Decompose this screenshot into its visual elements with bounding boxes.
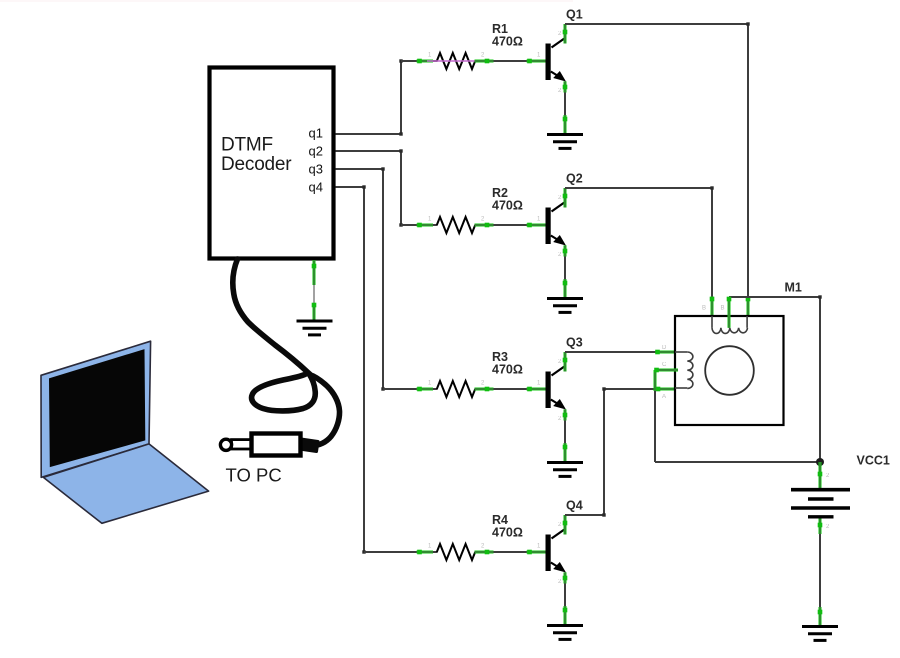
- collector wire of Q1: [563, 24, 568, 44]
- svg-text:VCC1: VCC1: [857, 454, 890, 468]
- resistor R4 470ohm: [433, 513, 523, 560]
- motor left coil winding: [662, 345, 693, 400]
- emitter wire of Q3 to ground: [563, 409, 568, 462]
- node wire into resistor R2: [401, 217, 433, 228]
- svg-text:C: C: [662, 362, 667, 368]
- svg-text:A: A: [662, 394, 666, 400]
- collector wire of Q3: [563, 352, 568, 372]
- collector wire of Q4: [563, 515, 568, 535]
- scan artifact line: [0, 0, 573, 2]
- wire resistor R2 to base of Q2: [475, 217, 548, 228]
- wire Q2 collector to motor top coil left pin: [565, 186, 714, 316]
- svg-text:B: B: [721, 306, 725, 312]
- resistor R2 470ohm: [433, 186, 523, 233]
- ground under Q3: [547, 461, 583, 464]
- wire Q3 collector to motor left coil pin D: [565, 350, 675, 355]
- audio jack strain relief nub: [300, 439, 319, 452]
- emitter wire of Q1 to ground: [563, 81, 568, 134]
- ground under decoder: [297, 260, 333, 335]
- svg-text:DTMF: DTMF: [221, 135, 273, 156]
- motor top coil winding: [702, 306, 748, 334]
- svg-text:Q1: Q1: [566, 8, 583, 22]
- svg-text:TO PC: TO PC: [226, 465, 282, 486]
- audio jack body: [252, 434, 301, 456]
- transistor Q4: [546, 499, 583, 586]
- svg-text:D: D: [662, 345, 667, 351]
- svg-text:Decoder: Decoder: [221, 154, 292, 175]
- svg-text:B: B: [702, 306, 706, 312]
- battery VCC1: [791, 454, 890, 517]
- wire Q1 collector to motor top coil right pin: [565, 22, 750, 316]
- wire resistor R3 to base of Q3: [475, 381, 548, 392]
- audio jack tip ring: [220, 439, 231, 450]
- USB/audio cable from decoder to jack: [233, 259, 340, 446]
- wire battery to ground: [818, 519, 830, 627]
- motor M1 label and wire: [727, 281, 822, 463]
- svg-text:470Ω: 470Ω: [492, 199, 523, 213]
- wire Q4 collector to motor left coil pin A: [565, 387, 675, 517]
- wire resistor R4 to base of Q4: [475, 544, 548, 555]
- transistor Q2: [546, 172, 583, 259]
- resistor R1 470ohm: [427, 22, 523, 69]
- DTMF decoder box U1: [210, 68, 334, 259]
- svg-text:470Ω: 470Ω: [492, 363, 523, 377]
- motor center tap pin C wire to VCC rail: [654, 368, 678, 462]
- ground under battery: [802, 625, 838, 628]
- stepper motor M1 body: [675, 316, 784, 425]
- motor rotor circle: [705, 346, 754, 395]
- svg-text:Q2: Q2: [566, 172, 583, 186]
- laptop computer: [41, 341, 209, 523]
- wire resistor R1 to base of Q1: [475, 53, 548, 64]
- svg-text:q3: q3: [309, 162, 323, 177]
- ground under Q4: [547, 624, 583, 627]
- svg-text:Q4: Q4: [566, 499, 583, 513]
- transistor Q3: [546, 336, 583, 423]
- wire from decoder pin q3: [336, 167, 385, 390]
- bottom VCC rail wire: [655, 461, 820, 463]
- ground under Q2: [547, 297, 583, 300]
- node wire into resistor R4: [364, 544, 433, 555]
- svg-text:470Ω: 470Ω: [492, 35, 523, 49]
- wire from decoder pin q2: [336, 149, 403, 226]
- svg-text:470Ω: 470Ω: [492, 526, 523, 540]
- node wire into resistor R1: [401, 53, 433, 64]
- node wire into resistor R3: [383, 381, 433, 392]
- svg-text:q1: q1: [309, 126, 323, 141]
- resistor R3 470ohm: [433, 350, 523, 397]
- svg-text:q4: q4: [309, 180, 323, 195]
- svg-text:q2: q2: [309, 143, 323, 158]
- audio jack shaft: [232, 440, 252, 449]
- wire from decoder pin q1: [336, 59, 403, 135]
- emitter wire of Q4 to ground: [563, 572, 568, 625]
- transistor Q1: [546, 8, 583, 95]
- svg-text:Q3: Q3: [566, 336, 583, 350]
- wire from decoder pin q4: [336, 185, 366, 553]
- collector wire of Q2: [563, 188, 568, 208]
- junction node VCC: [816, 458, 824, 466]
- ground under Q1: [547, 133, 583, 136]
- svg-text:M1: M1: [785, 281, 802, 295]
- emitter wire of Q2 to ground: [563, 245, 568, 298]
